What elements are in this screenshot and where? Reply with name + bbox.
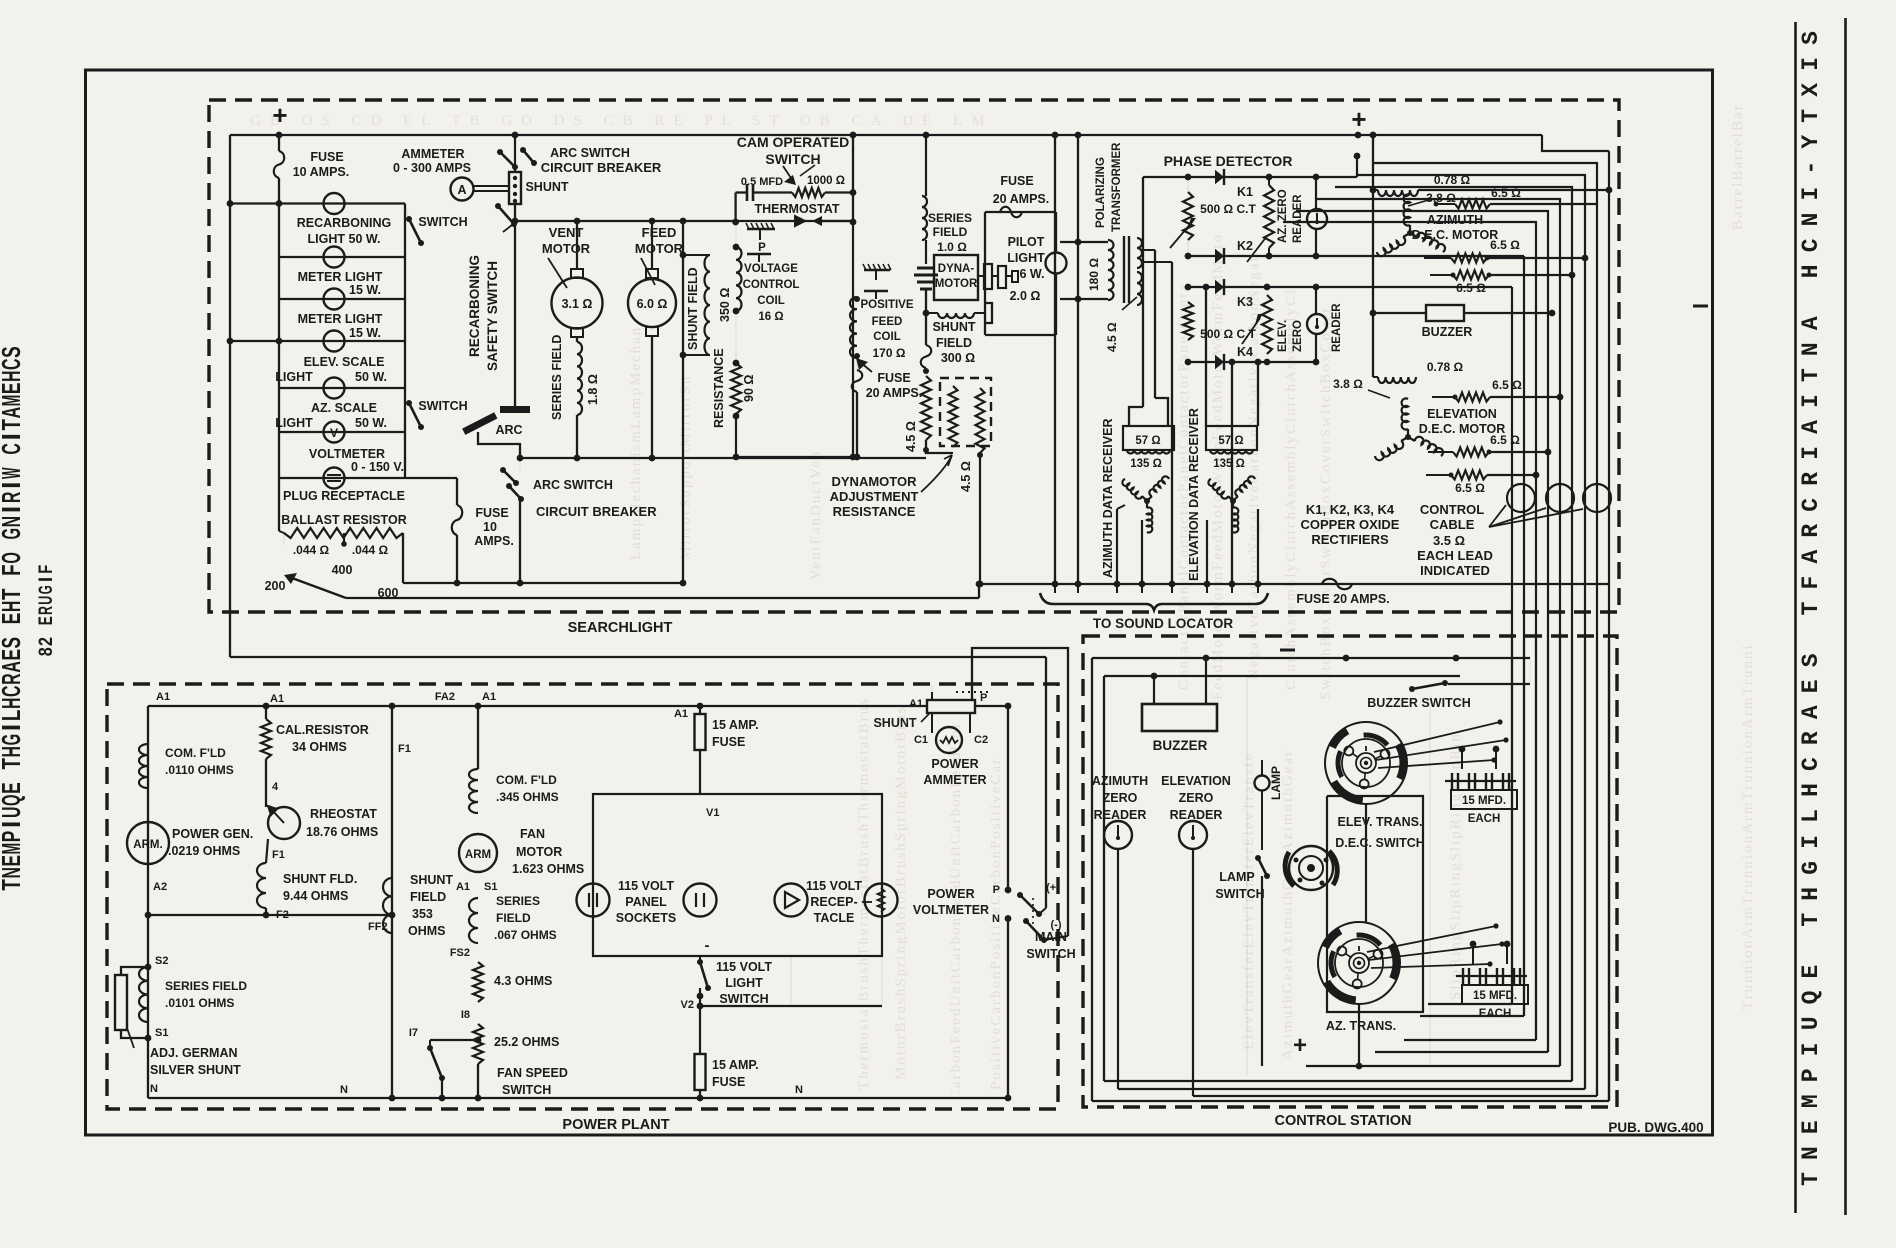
svg-text:I: I	[0, 506, 26, 513]
svg-text:S1: S1	[484, 881, 497, 893]
svg-text:I: I	[0, 821, 26, 828]
svg-text:MOTOR: MOTOR	[935, 278, 978, 290]
svg-text:RECARBONING: RECARBONING	[297, 216, 391, 230]
svg-text:W: W	[0, 467, 26, 479]
svg-text:4: 4	[272, 781, 279, 793]
svg-text:N: N	[1798, 213, 1824, 227]
wire plus feed top	[1092, 657, 1530, 659]
svg-text:SHUNT: SHUNT	[410, 873, 453, 887]
brace to sound locator	[1040, 593, 1268, 610]
svg-text:A1: A1	[674, 708, 688, 720]
wire main lower bus	[979, 583, 1609, 585]
wire control inner verticals	[1246, 676, 1248, 1076]
svg-text:CAL.RESISTOR: CAL.RESISTOR	[276, 723, 369, 737]
resistor ballast	[284, 528, 403, 538]
voltmeter circle	[865, 884, 898, 917]
wire ladder rung	[279, 431, 405, 433]
wire 683 drop	[682, 221, 684, 583]
svg-text:15 W.: 15 W.	[349, 283, 381, 297]
svg-text:VOLTAGE: VOLTAGE	[744, 263, 798, 275]
wire elev receiver drop	[1206, 520, 1208, 584]
label 15 MFD EACH upper	[1451, 790, 1517, 809]
svg-text:LIGHT: LIGHT	[1007, 251, 1045, 265]
svg-text:SHUNT FIELD: SHUNT FIELD	[686, 267, 700, 350]
svg-text:ZERO: ZERO	[1103, 791, 1138, 805]
svg-text:P: P	[758, 242, 766, 254]
switch S1 ladder top	[406, 216, 412, 222]
svg-text:135 Ω: 135 Ω	[1130, 458, 1162, 470]
wire ladder rung	[279, 477, 405, 479]
svg-text:VentFanDuctVen: VentFanDuctVen	[808, 450, 824, 580]
svg-text:10: 10	[483, 520, 497, 534]
svg-text:FIELD: FIELD	[933, 225, 968, 239]
svg-text:AZIMUTH: AZIMUTH	[1092, 774, 1148, 788]
switch buzzer switch	[1409, 686, 1415, 692]
svg-text:300 Ω: 300 Ω	[941, 351, 975, 365]
svg-text:.0219 OHMS: .0219 OHMS	[168, 844, 240, 858]
svg-text:LIGHT 50 W.: LIGHT 50 W.	[308, 232, 381, 246]
svg-text:I: I	[1798, 446, 1824, 460]
svg-text:T: T	[1798, 368, 1824, 382]
svg-text:FEED: FEED	[872, 316, 903, 328]
svg-text:P: P	[1798, 1068, 1824, 1082]
wire pd vertical e	[1231, 362, 1233, 584]
SEARCHLIGHT dashed enclosure	[209, 100, 1619, 612]
svg-text:A: A	[1798, 420, 1824, 434]
svg-text:.0101 OHMS: .0101 OHMS	[165, 996, 234, 1010]
svg-text:S: S	[1798, 31, 1824, 45]
switch lamp switch	[1255, 855, 1261, 861]
svg-text:+: +	[272, 100, 287, 130]
fuse 20A dyna column	[921, 345, 932, 368]
meter A ammeter	[451, 178, 474, 201]
svg-text:H: H	[0, 601, 26, 613]
svg-text:6.5 Ω: 6.5 Ω	[1490, 433, 1520, 447]
svg-text:FAN SPEED: FAN SPEED	[497, 1066, 568, 1080]
svg-text:MOTOR: MOTOR	[635, 241, 684, 256]
box az receiver 57 ohm	[1123, 426, 1174, 450]
svg-text:AZ. TRANS.: AZ. TRANS.	[1326, 1019, 1396, 1033]
CONTROL STATION dashed enclosure	[1083, 636, 1617, 1107]
svg-text:I: I	[0, 724, 26, 731]
coil shunt field 353	[383, 878, 392, 933]
receptacle circle	[775, 884, 808, 917]
diode K3	[1215, 280, 1224, 294]
svg-text:BUZZER SWITCH: BUZZER SWITCH	[1367, 696, 1470, 710]
svg-text:I: I	[1798, 57, 1824, 71]
dial elev trans dec switch	[1325, 722, 1407, 804]
svg-text:PUB. DWG.400: PUB. DWG.400	[1608, 1120, 1703, 1135]
svg-text:L: L	[0, 710, 26, 722]
wire K2 row	[1188, 255, 1316, 257]
svg-text:T: T	[0, 879, 26, 891]
svg-text:15 AMP.: 15 AMP.	[712, 718, 759, 732]
svg-text:N: N	[1798, 342, 1824, 356]
svg-text:F1: F1	[398, 743, 411, 755]
wire tie upper-left	[230, 202, 279, 204]
switch S2 ladder lower	[406, 400, 412, 406]
wire ladder rung	[279, 387, 405, 389]
svg-text:2.0 Ω: 2.0 Ω	[1010, 289, 1041, 303]
svg-text:FUSE: FUSE	[1000, 174, 1033, 188]
svg-text:(+): (+)	[1046, 882, 1060, 894]
svg-text:AMMETER: AMMETER	[923, 773, 986, 787]
svg-text:LIGHT: LIGHT	[275, 370, 313, 384]
svg-text:FIELD: FIELD	[936, 336, 972, 350]
coil shunt field 350	[683, 254, 710, 256]
svg-text:U: U	[1798, 1016, 1824, 1030]
generator power gen ARM	[127, 822, 169, 864]
svg-text:C: C	[1798, 238, 1824, 252]
coil com fld 345	[469, 769, 478, 813]
receptacle sub box	[700, 1005, 882, 1007]
svg-text:1000 Ω: 1000 Ω	[807, 175, 845, 187]
svg-text:TRANSFORMER: TRANSFORMER	[1111, 142, 1123, 232]
svg-text:VENT: VENT	[549, 225, 584, 240]
svg-text:6.0 Ω: 6.0 Ω	[637, 297, 668, 311]
svg-text:.044 Ω: .044 Ω	[352, 543, 389, 557]
svg-text:C2: C2	[974, 734, 988, 746]
svg-text:4.5 Ω: 4.5 Ω	[959, 461, 973, 492]
german silver shunt	[121, 967, 148, 975]
resistor az dec 1	[1455, 200, 1490, 209]
right margin rule left	[1794, 22, 1797, 1213]
svg-text:CAM OPERATED: CAM OPERATED	[737, 134, 850, 150]
motor fan ARM	[459, 834, 497, 872]
wire pd k1 to supply	[1316, 176, 1357, 178]
diode K4	[1215, 355, 1224, 369]
wire corridor plus	[1045, 657, 1047, 908]
svg-text:BUZZER: BUZZER	[1153, 738, 1208, 753]
dynamotor box	[934, 255, 978, 300]
wire arc to bus	[478, 432, 520, 458]
coil az dec motor input	[1378, 190, 1418, 196]
arc electrode lower	[462, 412, 497, 435]
transformer core	[1123, 236, 1125, 303]
coil series field 1.8 ohm	[576, 337, 578, 342]
svg-text:PILOT: PILOT	[1008, 235, 1045, 249]
resistor elev dec 2	[1428, 451, 1453, 453]
svg-text:AZIMUTH: AZIMUTH	[1427, 213, 1483, 227]
resistor 90 ohm	[733, 360, 740, 367]
left caption SCHEMATIC WIRING OF THE SEARCHLIGHT EQUIPMENT	[0, 346, 26, 890]
svg-text:34 OHMS: 34 OHMS	[292, 740, 347, 754]
svg-text:COIL: COIL	[873, 331, 900, 343]
svg-text:A: A	[1798, 550, 1824, 564]
rheostat 18.76	[268, 807, 300, 839]
wire 353 column	[391, 706, 393, 1098]
potentiometer 500 az	[1183, 192, 1193, 240]
wire feed plate	[875, 270, 877, 280]
svg-text:ELEVATION DATA RECEIVER: ELEVATION DATA RECEIVER	[1187, 408, 1201, 581]
wire left rail down to return line	[229, 135, 231, 657]
wire arc column	[514, 221, 516, 406]
svg-text:READER: READER	[1170, 808, 1223, 822]
wire K4 row	[1188, 361, 1316, 363]
svg-text:3.1 Ω: 3.1 Ω	[562, 297, 593, 311]
node thermostat rail	[515, 220, 853, 222]
svg-text:K1: K1	[1237, 185, 1253, 199]
svg-text:U: U	[0, 807, 26, 819]
svg-text:N: N	[0, 516, 26, 528]
svg-text:Q: Q	[1798, 990, 1824, 1004]
svg-text:V1: V1	[706, 807, 719, 819]
svg-text:A: A	[1798, 316, 1824, 330]
svg-text:170 Ω: 170 Ω	[873, 346, 906, 360]
meter V az voltmeter lamp	[324, 422, 345, 443]
svg-text:COM. F'LD: COM. F'LD	[496, 773, 557, 787]
fuse searchlight 20A lower	[856, 356, 858, 370]
coil series field 067	[469, 898, 478, 943]
svg-text:G: G	[1798, 861, 1824, 875]
wire elev trans pointers	[1374, 722, 1500, 752]
svg-text:C: C	[0, 685, 26, 697]
svg-text:RESISTANCE: RESISTANCE	[833, 504, 916, 519]
wire pd vertical b	[1154, 250, 1156, 398]
ground hatch positive feed	[864, 269, 890, 271]
diode K2	[1215, 249, 1224, 263]
svg-text:CIRCUIT BREAKER: CIRCUIT BREAKER	[541, 160, 662, 175]
svg-text:-: -	[1798, 161, 1824, 175]
svg-text:SWITCH: SWITCH	[418, 399, 467, 413]
svg-text:I: I	[1798, 1042, 1824, 1056]
switch main minus blade	[1023, 918, 1029, 924]
svg-text:15 W.: 15 W.	[349, 326, 381, 340]
svg-text:FUSE 20 AMPS.: FUSE 20 AMPS.	[1296, 592, 1389, 606]
coil elev dec motor input	[1373, 376, 1378, 378]
svg-text:25.2 OHMS: 25.2 OHMS	[494, 1035, 559, 1049]
dynamotor coupling	[978, 275, 984, 277]
svg-text:A2: A2	[153, 881, 167, 893]
svg-text:ARC: ARC	[495, 423, 522, 437]
svg-text:FAN: FAN	[520, 827, 545, 841]
svg-text:POWER: POWER	[931, 757, 978, 771]
ground hatch voltage control	[747, 228, 775, 230]
svg-text:ARM.: ARM.	[133, 839, 162, 851]
wire top supply rail	[230, 134, 1542, 136]
meter az zero reader (phase)	[1307, 209, 1327, 229]
power inner rect top	[148, 705, 1008, 707]
svg-text:SERIES FIELD: SERIES FIELD	[165, 979, 247, 993]
wire searchlight return line	[230, 656, 1046, 658]
meter azimuth zero reader	[1104, 821, 1132, 849]
svg-text:I8: I8	[461, 1009, 470, 1021]
svg-text:6.5 Ω: 6.5 Ω	[1456, 281, 1486, 295]
svg-text:A1: A1	[156, 691, 170, 703]
svg-text:POWER PLANT: POWER PLANT	[562, 1117, 669, 1133]
svg-text:F: F	[36, 565, 57, 574]
svg-text:I: I	[1798, 187, 1824, 201]
left caption FIGURE 28	[36, 565, 57, 657]
dotted tie main switch	[1032, 898, 1034, 928]
wire shunt column	[514, 135, 516, 172]
svg-text:EACH: EACH	[1479, 1008, 1512, 1020]
wire dyna left column	[925, 289, 927, 345]
drawing border frame	[86, 70, 1713, 1135]
svg-text:T: T	[1798, 601, 1824, 615]
wire P plate	[759, 229, 761, 240]
svg-text:F: F	[1798, 576, 1824, 590]
svg-text:10 AMPS.: 10 AMPS.	[293, 165, 350, 179]
svg-text:N: N	[795, 1084, 803, 1096]
svg-text:H: H	[0, 698, 26, 710]
svg-text:LIGHT: LIGHT	[725, 976, 763, 990]
svg-text:SHUNT FLD.: SHUNT FLD.	[283, 872, 357, 886]
svg-text:S2: S2	[155, 955, 168, 967]
wire ladder rung	[279, 340, 405, 342]
arc electrode upper	[500, 406, 530, 413]
dashed box dynamotor adjustment	[940, 378, 991, 446]
socket box	[593, 794, 882, 956]
svg-text:I: I	[1798, 835, 1824, 849]
svg-text:6.5 Ω: 6.5 Ω	[1492, 378, 1522, 392]
lamp meter light 1	[324, 247, 345, 268]
svg-text:E: E	[0, 855, 26, 867]
fuse 15 amp lower	[695, 1054, 706, 1090]
svg-text:R: R	[1798, 731, 1824, 745]
wire pilot bottom	[1055, 273, 1057, 335]
svg-text:15 MFD.: 15 MFD.	[1473, 990, 1517, 1002]
wire pilot pair verticals	[1054, 135, 1056, 212]
wire lamp ladder left rail	[278, 204, 280, 532]
svg-text:0 - 300 AMPS: 0 - 300 AMPS	[393, 161, 471, 175]
shunt (searchlight)	[509, 172, 521, 204]
svg-text:FA2: FA2	[435, 691, 455, 703]
buzzer (control)	[1142, 704, 1217, 731]
fuse 20A pilot	[1000, 207, 1022, 218]
svg-text:+: +	[1351, 104, 1366, 134]
svg-text:CONTROL: CONTROL	[1420, 502, 1484, 517]
lamp elev scale light	[324, 331, 345, 352]
svg-text:1.623 OHMS: 1.623 OHMS	[512, 862, 584, 876]
svg-text:D.E.C. MOTOR: D.E.C. MOTOR	[1412, 228, 1499, 242]
svg-text:TrunnionArmTrunnionArmTrunnion: TrunnionArmTrunnionArmTrunnionArmTrunni	[1740, 643, 1756, 1010]
coil transformer primary	[1108, 240, 1114, 300]
svg-text:SOCKETS: SOCKETS	[616, 911, 676, 925]
svg-text:TO SOUND LOCATOR: TO SOUND LOCATOR	[1093, 616, 1234, 631]
svg-text:135 Ω: 135 Ω	[1213, 458, 1245, 470]
svg-text:POSITIVE: POSITIVE	[860, 299, 913, 311]
svg-text:400: 400	[332, 563, 353, 577]
motor feed 6.0 ohm	[651, 221, 653, 269]
svg-text:AMPS.: AMPS.	[474, 534, 514, 548]
svg-text:POLARIZING: POLARIZING	[1095, 157, 1107, 228]
svg-text:FEED: FEED	[642, 225, 677, 240]
wire primary leads	[1060, 241, 1108, 243]
svg-text:E: E	[0, 782, 26, 794]
svg-text:DYNAMOTOR: DYNAMOTOR	[832, 474, 918, 489]
control cable circles	[1507, 484, 1535, 512]
svg-text:SWITCH: SWITCH	[719, 992, 768, 1006]
svg-text:FS2: FS2	[450, 947, 470, 959]
svg-text:1.0 Ω: 1.0 Ω	[937, 240, 967, 254]
svg-text:AZ. SCALE: AZ. SCALE	[311, 401, 377, 415]
svg-text:E: E	[36, 616, 57, 625]
harness verticals into control station	[1608, 640, 1610, 1101]
svg-text:CONTROL: CONTROL	[743, 279, 800, 291]
svg-text:READER: READER	[1331, 303, 1343, 352]
wire wiper return line	[346, 597, 979, 599]
svg-text:K1, K2, K3, K4: K1, K2, K3, K4	[1306, 502, 1395, 517]
svg-text:K3: K3	[1237, 295, 1253, 309]
resistor elev dec 3	[1426, 474, 1451, 476]
svg-text:THERMOSTAT: THERMOSTAT	[755, 202, 840, 216]
svg-text:H: H	[0, 371, 26, 383]
svg-text:9.44 OHMS: 9.44 OHMS	[283, 889, 348, 903]
svg-text:6 W.: 6 W.	[1019, 267, 1044, 281]
svg-text:FIELD: FIELD	[496, 911, 531, 925]
svg-text:T: T	[0, 588, 26, 600]
svg-text:ELEVATION: ELEVATION	[1427, 407, 1497, 421]
svg-text:SHUNT: SHUNT	[873, 716, 916, 730]
harness bottom fan left	[1092, 1100, 1609, 1102]
svg-text:AZIMUTH DATA RECEIVER: AZIMUTH DATA RECEIVER	[1101, 419, 1115, 579]
svg-text:+: +	[1293, 1032, 1307, 1059]
svg-text:6.5 Ω: 6.5 Ω	[1490, 238, 1520, 252]
switch arc switch lower	[500, 467, 506, 473]
wire K1 row	[1188, 176, 1316, 178]
svg-text:SWITCH: SWITCH	[765, 151, 820, 167]
svg-text:SERIES: SERIES	[496, 894, 540, 908]
label 15 MFD EACH lower	[1462, 985, 1528, 1004]
svg-text:F: F	[0, 564, 26, 576]
power inner bottom	[148, 1097, 1008, 1099]
POWER PLANT dashed enclosure	[107, 684, 1058, 1109]
dial dec aux switch	[1285, 846, 1337, 890]
svg-text:C: C	[1798, 757, 1824, 771]
thermostat contacts	[782, 216, 805, 226]
svg-text:N: N	[0, 867, 26, 879]
wire ammeter to shunt	[474, 185, 510, 187]
svg-text:PHASE DETECTOR: PHASE DETECTOR	[1164, 153, 1293, 169]
svg-text:G: G	[0, 528, 26, 540]
resistor 25.2 ohms	[473, 1024, 483, 1064]
coil com fld 0110	[139, 744, 148, 788]
svg-text:180 Ω: 180 Ω	[1087, 258, 1101, 291]
svg-text:READER: READER	[1292, 194, 1304, 243]
shunt (power)	[927, 700, 975, 713]
wire ladder to fuse2	[405, 477, 457, 479]
svg-text:A1: A1	[456, 881, 470, 893]
svg-text:4.5 Ω: 4.5 Ω	[1105, 322, 1119, 352]
svg-text:POWER GEN.: POWER GEN.	[172, 827, 253, 841]
svg-text:METER LIGHT: METER LIGHT	[298, 312, 383, 326]
svg-text:0 - 150 V.: 0 - 150 V.	[351, 460, 404, 474]
svg-text:RECTIFIERS: RECTIFIERS	[1311, 532, 1389, 547]
svg-text:G: G	[36, 585, 57, 594]
resistor az zero CT	[1264, 185, 1274, 248]
svg-text:E: E	[1798, 679, 1824, 693]
svg-text:INDICATED: INDICATED	[1420, 563, 1490, 578]
capacitor bank 15MFD lower	[1456, 975, 1527, 977]
wire tie lower-left	[230, 340, 279, 342]
wire az receiver drop	[1141, 520, 1143, 584]
svg-text:G: G	[0, 734, 26, 746]
svg-text:COPPER OXIDE: COPPER OXIDE	[1301, 517, 1400, 532]
svg-text:8: 8	[36, 647, 57, 656]
wire reader rail elev	[1315, 287, 1317, 314]
wire az trans pointers	[1367, 926, 1496, 952]
svg-text:ThermostatBrushThermostatBrush: ThermostatBrushThermostatBrushThermostat…	[856, 697, 872, 1090]
svg-text:A1: A1	[482, 691, 496, 703]
svg-text:A: A	[1798, 705, 1824, 719]
svg-text:PLUG RECEPTACLE: PLUG RECEPTACLE	[283, 489, 405, 503]
svg-text:SERIES FIELD: SERIES FIELD	[550, 335, 564, 420]
capacitor bank 15MFD upper	[1445, 780, 1516, 782]
coil series field 0101	[139, 967, 148, 1022]
svg-text:ELEV. TRANS.: ELEV. TRANS.	[1338, 815, 1423, 829]
svg-text:50 W.: 50 W.	[355, 416, 387, 430]
